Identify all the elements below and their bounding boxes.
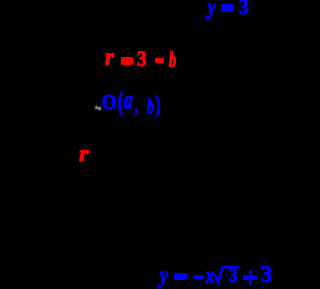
node: b of equation r = 3 - b bbox=[169, 59, 176, 61]
node: equals sign of bottom equation bbox=[174, 273, 187, 280]
node: equals sign of r = 3 - b bbox=[121, 57, 133, 65]
node: x of line equation bbox=[206, 275, 214, 277]
node: ) of O(a, b) bbox=[156, 104, 160, 106]
node: constant 3 (clipped) bbox=[261, 274, 272, 276]
node: constant 3 of line y = 3 bbox=[239, 6, 248, 8]
node: equals sign of y = 3 bbox=[221, 4, 234, 12]
node: b of O(a, b) bbox=[147, 106, 154, 108]
node: minus sign of bottom equation bbox=[193, 275, 204, 279]
node: plus sign horizontal bar bbox=[243, 275, 256, 280]
node: plus sign vertical bar bbox=[249, 270, 252, 285]
node: minus sign of r = 3 - b bbox=[155, 58, 164, 63]
node: faint center point marker bbox=[95, 106, 98, 109]
node: O of center label O(a, b) bbox=[102, 101, 116, 103]
node: y of line y = -x sqrt(3) + 3 bbox=[160, 275, 168, 277]
node: a of O(a, b) bbox=[124, 100, 132, 102]
node: r of equation r = 3 - b bbox=[105, 57, 114, 59]
node: 3 of equation r = 3 - b bbox=[137, 58, 147, 60]
node: ( of O(a, b) bbox=[118, 102, 122, 104]
node: 3 under radical bbox=[229, 275, 237, 277]
node: label y of line y = 3 bbox=[208, 6, 215, 8]
node: radius label r bbox=[79, 153, 89, 155]
node: comma of O(a, b) bbox=[135, 106, 138, 108]
node: radical sign of sqrt(3) bbox=[212, 263, 242, 285]
